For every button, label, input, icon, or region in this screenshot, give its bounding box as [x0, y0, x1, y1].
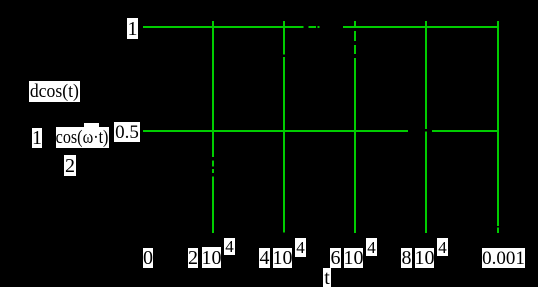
top axis line dash 2	[318, 26, 320, 28]
x tick label 0.001	[482, 248, 525, 268]
trace legend cos(w t)	[56, 127, 109, 148]
x tick exponent 4	[295, 238, 306, 257]
x tick label 6	[330, 248, 341, 268]
x tick label 0	[143, 248, 153, 268]
vertical trace at x=6e-4 (lower solid)	[354, 58, 356, 233]
vertical trace at x=1e-3 (upper)	[497, 21, 499, 226]
x tick label 4	[259, 248, 270, 268]
x tick label 10	[415, 248, 434, 268]
vertical trace at x=1e-3 (bottom stub)	[497, 228, 499, 234]
x tick exponent 4	[224, 238, 235, 255]
x tick exponent 4	[437, 238, 448, 256]
legend fraction numerator 1	[32, 128, 42, 148]
vertical trace at x=8e-4 (upper)	[425, 21, 427, 129]
legend omega box bump	[84, 123, 99, 129]
0.5 grid line (left part)	[143, 130, 408, 132]
x tick label 8	[401, 248, 412, 268]
y-axis label 1	[127, 18, 138, 39]
vertical trace at x=2e-4 dash 1	[212, 161, 214, 167]
0.5 grid line (right part)	[432, 130, 498, 132]
vertical trace at x=4e-4 (lower)	[283, 57, 285, 233]
top axis line y=1 (right solid part)	[343, 26, 498, 28]
trace legend dcos(t)	[29, 81, 80, 102]
vertical trace at x=2e-4 dash 2	[212, 169, 214, 173]
vertical trace at x=2e-4 (lower solid)	[212, 177, 214, 234]
top axis line y=1 (left solid part)	[143, 26, 304, 28]
vertical trace at x=6e-4 dash 2	[354, 45, 356, 54]
vertical trace at x=6e-4 top tick	[354, 21, 356, 27]
x tick exponent 4	[366, 238, 377, 256]
x tick label 10	[344, 248, 363, 268]
x tick label 10	[202, 247, 221, 268]
top axis line dash 1	[309, 26, 317, 28]
x tick label 10	[273, 248, 292, 268]
x tick label 2	[188, 248, 198, 268]
x axis title t	[323, 268, 331, 287]
legend fraction denominator 2	[64, 155, 76, 176]
vertical trace at x=6e-4 dash 1	[354, 31, 356, 41]
vertical trace at x=8e-4 (lower)	[425, 132, 427, 234]
vertical trace at x=4e-4 (upper)	[283, 21, 285, 55]
vertical trace at x=2e-4 (upper solid)	[212, 21, 214, 157]
y-axis label 0.5	[114, 122, 140, 142]
